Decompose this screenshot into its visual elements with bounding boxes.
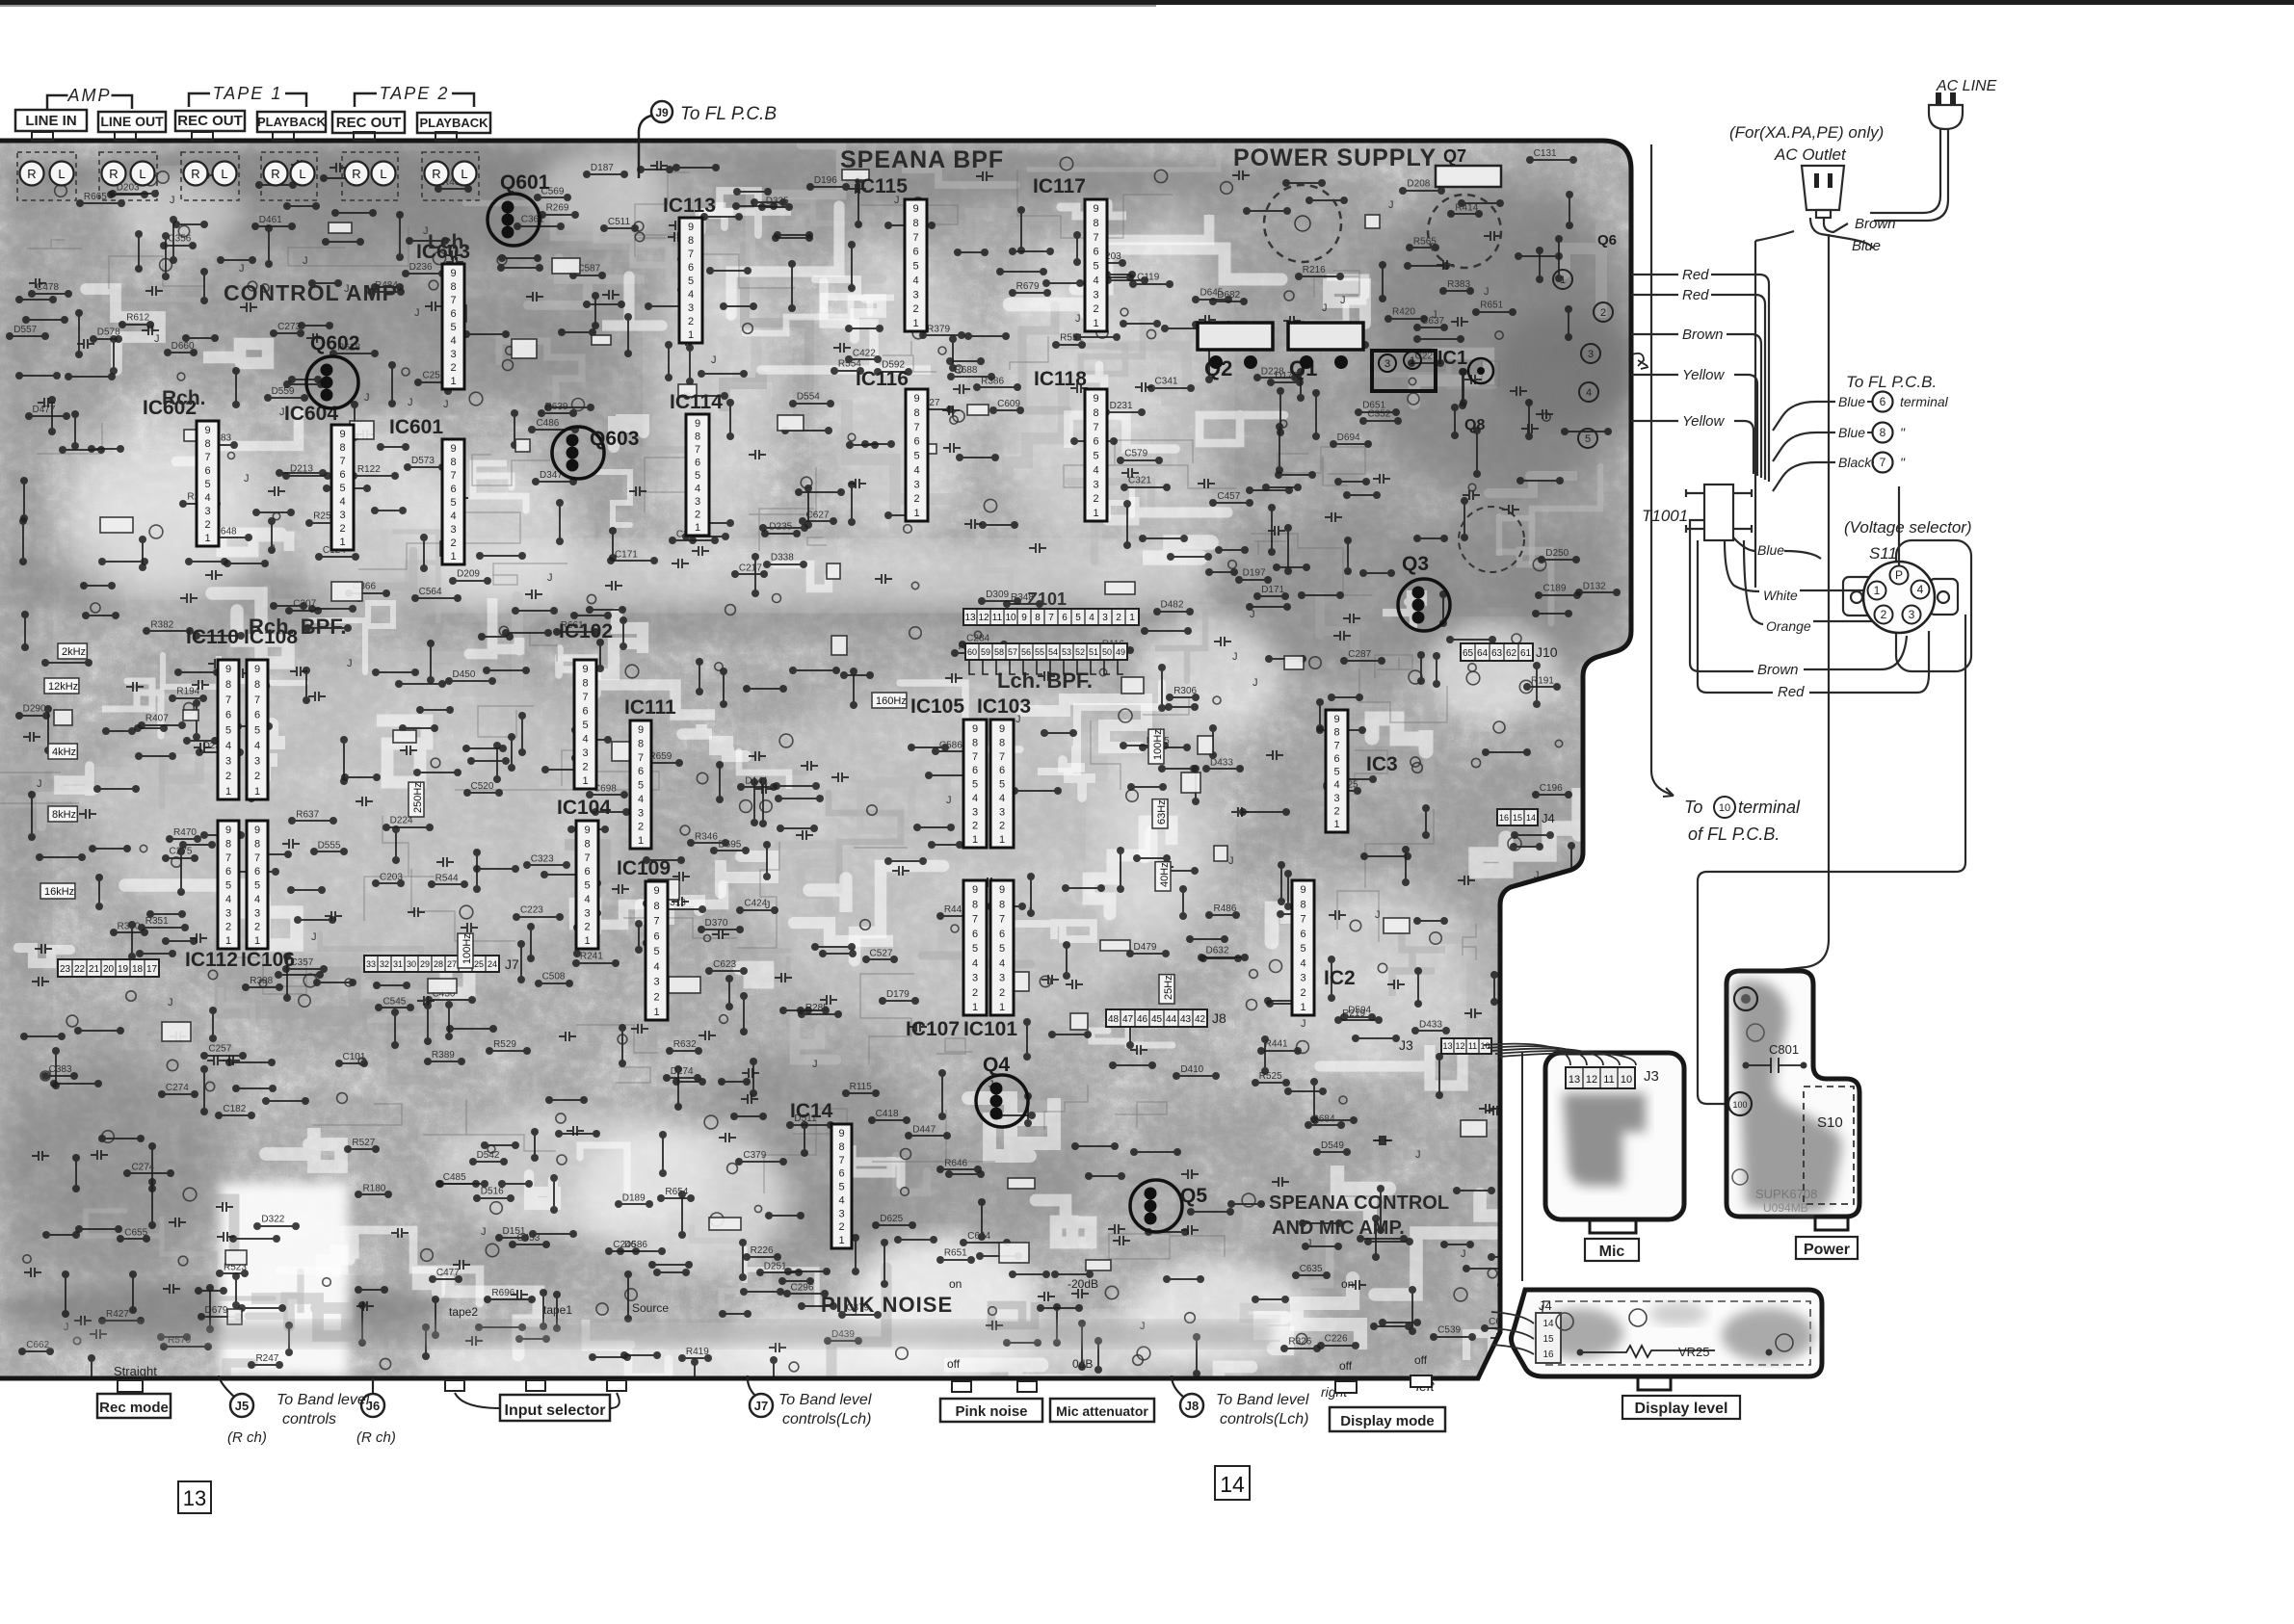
svg-text:5: 5 — [1333, 767, 1339, 778]
IC package IC111 — [630, 720, 651, 849]
circled pads 1-5 on board edge — [1553, 270, 1572, 289]
svg-text:8: 8 — [254, 679, 260, 691]
svg-text:R216: R216 — [1303, 265, 1326, 275]
connector R/L pair 6 — [422, 152, 479, 200]
IC package IC116 — [906, 389, 928, 521]
svg-text:on: on — [949, 1277, 962, 1291]
svg-text:18: 18 — [132, 964, 144, 975]
svg-text:Red: Red — [1682, 267, 1709, 283]
svg-text:controls: controls — [282, 1411, 336, 1428]
svg-text:9: 9 — [695, 418, 700, 430]
wire Yellow from board edge — [1631, 420, 1678, 422]
svg-text:J: J — [347, 658, 353, 669]
svg-text:3: 3 — [1909, 608, 1915, 621]
svg-text:C609: C609 — [997, 399, 1020, 409]
svg-text:3: 3 — [688, 302, 694, 314]
svg-text:IC111: IC111 — [624, 696, 676, 719]
svg-text:J: J — [37, 778, 42, 790]
svg-text:R486: R486 — [1213, 904, 1236, 914]
svg-text:29: 29 — [420, 959, 430, 969]
svg-text:4: 4 — [688, 289, 694, 301]
svg-text:2: 2 — [1093, 493, 1098, 505]
svg-text:6: 6 — [1093, 247, 1098, 258]
IC package IC108 — [247, 660, 268, 799]
svg-text:33: 33 — [366, 959, 376, 969]
wire from S11 right tab to power board — [1698, 615, 1965, 1104]
svg-text:8: 8 — [999, 737, 1005, 748]
svg-text:64: 64 — [1477, 648, 1489, 659]
svg-text:L: L — [461, 167, 467, 181]
svg-text:J: J — [1484, 286, 1490, 298]
svg-text:4: 4 — [582, 734, 588, 746]
svg-text:R308: R308 — [250, 976, 273, 986]
svg-text:8: 8 — [450, 457, 456, 468]
Display level gray blobs — [1537, 1308, 1623, 1358]
svg-text:5: 5 — [225, 725, 231, 737]
svg-text:1: 1 — [1129, 613, 1135, 623]
svg-text:2: 2 — [838, 1221, 844, 1233]
svg-text:7: 7 — [838, 1155, 844, 1166]
svg-text:1: 1 — [584, 935, 590, 947]
svg-text:1: 1 — [653, 1007, 659, 1018]
svg-text:D482: D482 — [1161, 600, 1184, 611]
svg-text:9: 9 — [225, 825, 231, 836]
input selector tabs and wires — [445, 1380, 464, 1391]
svg-text:6: 6 — [225, 710, 231, 721]
svg-text:6: 6 — [913, 436, 919, 448]
svg-text:IC107: IC107 — [906, 1018, 960, 1040]
connector Z101 lower pin row — [965, 643, 1127, 660]
svg-text:J: J — [1075, 313, 1081, 325]
svg-text:12kHz: 12kHz — [48, 681, 78, 693]
tab above Rec mode — [118, 1380, 143, 1392]
label box Power — [1796, 1237, 1858, 1259]
svg-text:D208: D208 — [1407, 179, 1430, 190]
svg-text:Source: Source — [632, 1301, 669, 1315]
svg-text:9: 9 — [1093, 203, 1098, 215]
svg-text:8: 8 — [254, 838, 260, 850]
svg-text:J6: J6 — [366, 1399, 380, 1413]
small resistor/capacitor lead glyphs — [371, 507, 407, 514]
svg-text:46: 46 — [1137, 1014, 1148, 1025]
svg-text:R: R — [109, 167, 118, 181]
svg-text:IC3: IC3 — [1366, 753, 1398, 775]
svg-text:Yellow: Yellow — [1682, 413, 1726, 430]
wire J7 to board — [748, 1375, 755, 1396]
IC package IC601 — [442, 439, 464, 564]
svg-text:10: 10 — [1719, 802, 1730, 814]
svg-text:6: 6 — [254, 710, 260, 721]
transistor Q601 — [488, 194, 540, 246]
svg-text:J: J — [239, 263, 245, 275]
transistor Q2 package — [1198, 323, 1273, 350]
svg-text:Black: Black — [1838, 455, 1872, 470]
svg-text:Pink noise: Pink noise — [955, 1403, 1027, 1420]
svg-text:R651: R651 — [944, 1248, 967, 1259]
svg-text:IC117: IC117 — [1033, 175, 1086, 197]
svg-text:C418: C418 — [876, 1109, 899, 1119]
svg-text:D213: D213 — [290, 464, 313, 475]
svg-text:J8: J8 — [1185, 1399, 1199, 1413]
svg-text:C627: C627 — [806, 510, 830, 520]
svg-text:J7: J7 — [505, 956, 519, 972]
svg-text:5: 5 — [972, 943, 978, 955]
svg-text:C635: C635 — [1300, 1264, 1323, 1274]
svg-text:P: P — [1895, 568, 1903, 582]
svg-text:9: 9 — [688, 222, 694, 233]
svg-text:1: 1 — [972, 1002, 978, 1013]
svg-text:6: 6 — [1300, 929, 1305, 940]
svg-text:1: 1 — [1410, 355, 1415, 367]
svg-text:IC601: IC601 — [389, 416, 443, 438]
svg-text:J9: J9 — [655, 106, 669, 119]
svg-text:2: 2 — [638, 822, 644, 833]
dark bus band above bottom edge — [29, 1322, 1272, 1347]
svg-text:C203: C203 — [380, 872, 403, 882]
svg-text:R: R — [27, 167, 36, 181]
frequency label 40Hz — [1155, 862, 1171, 891]
label box REC OUT — [332, 112, 405, 133]
svg-text:J3: J3 — [1399, 1037, 1413, 1053]
label box Input selector — [500, 1395, 610, 1421]
svg-text:15: 15 — [1513, 813, 1522, 823]
connector J3 pin row on main board — [1441, 1038, 1491, 1054]
svg-text:9: 9 — [999, 884, 1005, 896]
IC package IC package — [990, 880, 1014, 1015]
svg-text:2: 2 — [225, 922, 231, 933]
svg-text:IC14: IC14 — [790, 1100, 833, 1122]
svg-text:J: J — [170, 195, 175, 206]
small pad circle — [1747, 1024, 1764, 1041]
component outline boxes — [1121, 677, 1144, 694]
IC package IC105 — [963, 720, 987, 848]
svg-text:1: 1 — [913, 508, 919, 519]
svg-text:2: 2 — [972, 987, 978, 999]
svg-text:8: 8 — [1333, 727, 1339, 739]
svg-text:D594: D594 — [1348, 1006, 1371, 1016]
frequency label 100Hz — [1148, 729, 1164, 764]
svg-text:7: 7 — [339, 456, 345, 467]
svg-text:9: 9 — [204, 425, 210, 436]
svg-text:LINE IN: LINE IN — [25, 113, 76, 129]
svg-text:3: 3 — [653, 977, 659, 988]
svg-text:42: 42 — [1195, 1014, 1206, 1025]
svg-text:8: 8 — [653, 901, 659, 912]
svg-text:1: 1 — [339, 537, 345, 548]
svg-text:IC1: IC1 — [1437, 348, 1467, 369]
svg-text:R470: R470 — [173, 827, 197, 838]
svg-text:R: R — [191, 167, 199, 181]
svg-text:D433: D433 — [1419, 1019, 1442, 1030]
svg-text:8: 8 — [838, 1141, 844, 1153]
svg-text:J: J — [443, 399, 449, 410]
svg-text:D132: D132 — [1583, 581, 1606, 591]
Power board gray trace blob — [1734, 981, 1842, 1213]
svg-text:off: off — [1414, 1353, 1428, 1367]
frequency label 2kHz — [58, 643, 87, 659]
frequency label 25Hz — [1159, 975, 1174, 1004]
label box Display mode — [1330, 1407, 1445, 1431]
svg-text:Red: Red — [1682, 287, 1709, 303]
svg-text:SPEANA CONTROL: SPEANA CONTROL — [1269, 1192, 1449, 1214]
node J8 — [1180, 1394, 1203, 1417]
svg-text:R351: R351 — [145, 916, 169, 927]
svg-text:8: 8 — [339, 442, 345, 454]
wires into J4 — [1491, 1312, 1534, 1323]
svg-text:L: L — [139, 167, 145, 181]
svg-text:2: 2 — [450, 537, 456, 549]
IC package IC115 — [905, 199, 927, 331]
page number 14 — [1215, 1466, 1250, 1500]
svg-text:7: 7 — [204, 452, 210, 463]
svg-text:2: 2 — [254, 922, 260, 933]
svg-text:S11: S11 — [1869, 544, 1897, 563]
svg-text:R180: R180 — [362, 1183, 385, 1193]
svg-text:3: 3 — [339, 510, 345, 521]
small screw pad — [1732, 1169, 1748, 1185]
svg-text:19: 19 — [118, 964, 129, 975]
svg-text:3: 3 — [999, 806, 1005, 818]
svg-text:D573: D573 — [411, 456, 435, 466]
bracket AMP — [47, 95, 68, 109]
svg-text:6: 6 — [254, 866, 260, 877]
svg-text:R529: R529 — [493, 1039, 516, 1050]
svg-text:4: 4 — [999, 793, 1005, 804]
label box LINE IN — [15, 110, 87, 131]
transistor Q5 — [1130, 1180, 1182, 1232]
svg-text:Z101: Z101 — [1027, 589, 1067, 609]
svg-text:9: 9 — [225, 664, 231, 675]
svg-text:8: 8 — [913, 407, 919, 419]
svg-text:D660: D660 — [171, 341, 195, 352]
label box Display level — [1622, 1396, 1740, 1419]
svg-text:C182: C182 — [223, 1104, 246, 1114]
svg-text:L: L — [380, 167, 386, 181]
svg-text:C623: C623 — [713, 959, 736, 970]
svg-text:1: 1 — [838, 1235, 844, 1246]
svg-text:13: 13 — [964, 613, 976, 623]
svg-text:8: 8 — [1093, 407, 1098, 419]
svg-text:8: 8 — [584, 838, 590, 850]
svg-text:R427: R427 — [106, 1309, 129, 1320]
svg-text:J: J — [303, 255, 308, 267]
voltage selector S11 connector — [1896, 540, 1971, 671]
regulator IC1 — [1372, 351, 1436, 391]
svg-text:2: 2 — [339, 523, 345, 535]
svg-text:D410: D410 — [1180, 1064, 1203, 1075]
svg-text:51: 51 — [1089, 647, 1098, 657]
svg-text:C287: C287 — [1348, 649, 1371, 660]
svg-text:4: 4 — [225, 740, 231, 751]
svg-text:D695: D695 — [718, 839, 741, 850]
svg-text:22: 22 — [74, 964, 86, 975]
svg-text:3: 3 — [972, 806, 978, 818]
svg-text:7: 7 — [1300, 914, 1305, 926]
svg-text:3: 3 — [1588, 349, 1594, 360]
svg-text:0dB: 0dB — [1072, 1357, 1093, 1371]
svg-text:3: 3 — [1384, 358, 1390, 370]
svg-text:7: 7 — [582, 692, 588, 703]
Display board bottom tab — [1638, 1376, 1671, 1390]
svg-text:C273: C273 — [277, 322, 301, 332]
svg-text:D433: D433 — [1210, 757, 1233, 768]
wire loop from T1001 left — [1690, 520, 1753, 671]
svg-text:AC Outlet: AC Outlet — [1774, 145, 1847, 164]
svg-text:1: 1 — [1093, 508, 1098, 519]
svg-text:S10: S10 — [1817, 1114, 1843, 1131]
svg-text:12: 12 — [1586, 1074, 1597, 1086]
svg-text:6: 6 — [972, 765, 978, 776]
svg-text:Q603: Q603 — [590, 428, 639, 450]
svg-text:PLAYBACK: PLAYBACK — [257, 115, 327, 129]
svg-text:27: 27 — [447, 959, 457, 969]
svg-text:5: 5 — [582, 720, 588, 731]
connector J8 pin row — [1106, 1009, 1207, 1027]
Power sub-board outline — [1727, 971, 1859, 1217]
svg-text:60: 60 — [967, 647, 977, 657]
svg-text:100Hz: 100Hz — [1152, 729, 1164, 760]
label box PLAYBACK — [257, 112, 326, 132]
svg-text:R: R — [271, 167, 279, 181]
bracket TAPE 2 — [355, 93, 377, 107]
svg-text:7: 7 — [1333, 740, 1339, 751]
cord wires to outlet — [1810, 218, 1873, 249]
svg-text:54: 54 — [1048, 647, 1058, 657]
svg-text:3: 3 — [1093, 289, 1098, 301]
transistor Q3 — [1398, 579, 1450, 631]
svg-text:4: 4 — [254, 740, 260, 751]
svg-text:1: 1 — [912, 318, 918, 329]
svg-text:7: 7 — [999, 751, 1005, 763]
svg-text:6: 6 — [1062, 613, 1068, 623]
svg-text:4: 4 — [653, 961, 659, 973]
svg-text:D251: D251 — [764, 1261, 787, 1271]
svg-text:C511: C511 — [608, 217, 631, 227]
svg-text:J4: J4 — [1542, 811, 1555, 825]
IC package IC2 — [1292, 880, 1314, 1015]
svg-text:160Hz: 160Hz — [876, 695, 907, 707]
svg-text:J: J — [311, 931, 317, 943]
svg-text:C655: C655 — [124, 1227, 147, 1238]
label box PLAYBACK — [417, 113, 490, 133]
svg-text:To Band level: To Band level — [778, 1392, 872, 1408]
svg-text:6: 6 — [1880, 395, 1886, 408]
svg-text:7: 7 — [1093, 232, 1098, 244]
svg-text:CONTROL AMP: CONTROL AMP — [224, 280, 398, 305]
svg-text:5: 5 — [339, 483, 345, 494]
svg-text:6: 6 — [999, 929, 1005, 940]
svg-text:9: 9 — [1333, 714, 1339, 725]
frequency label 4kHz — [48, 744, 77, 759]
transistor Q603 — [552, 427, 604, 479]
svg-text:AC LINE: AC LINE — [1936, 78, 1997, 94]
svg-text:D250: D250 — [1545, 548, 1569, 559]
svg-text:C196: C196 — [1540, 783, 1563, 794]
svg-text:8: 8 — [204, 438, 210, 450]
svg-text:1: 1 — [450, 551, 456, 563]
svg-text:J: J — [168, 997, 173, 1008]
svg-text:8: 8 — [912, 218, 918, 229]
svg-text:Power: Power — [1804, 1242, 1850, 1258]
svg-text:8: 8 — [999, 899, 1005, 910]
wire Red from board edge — [1631, 274, 1678, 275]
Power board bottom tab — [1815, 1217, 1848, 1230]
svg-text:9: 9 — [450, 268, 456, 279]
svg-text:D549: D549 — [1321, 1140, 1344, 1151]
svg-text:tape2: tape2 — [449, 1305, 478, 1319]
svg-text:3: 3 — [1093, 479, 1098, 490]
wires from main board to mic J3 — [1484, 1044, 1570, 1065]
svg-text:1: 1 — [582, 775, 588, 787]
svg-text:3: 3 — [913, 479, 919, 490]
svg-text:2: 2 — [653, 991, 659, 1003]
svg-text:Q4: Q4 — [983, 1054, 1010, 1076]
svg-text:4: 4 — [1093, 275, 1098, 286]
svg-text:62: 62 — [1506, 648, 1517, 659]
svg-text:2: 2 — [450, 362, 456, 374]
svg-text:D196: D196 — [814, 175, 837, 186]
svg-text:13: 13 — [1442, 1041, 1452, 1051]
svg-text:10: 10 — [1005, 613, 1016, 623]
svg-text:45: 45 — [1151, 1014, 1163, 1025]
wire Red from board edge — [1631, 294, 1678, 296]
svg-text:30: 30 — [407, 959, 416, 969]
svg-text:R383: R383 — [1447, 279, 1470, 290]
svg-text:R379: R379 — [927, 324, 950, 334]
wire from J9 into board — [639, 116, 651, 178]
svg-text:D370: D370 — [705, 918, 728, 929]
svg-text:7: 7 — [688, 249, 694, 260]
svg-text:25Hz: 25Hz — [1163, 975, 1174, 1000]
IC package IC117 — [1085, 199, 1107, 331]
svg-text:8: 8 — [582, 678, 588, 690]
svg-text:IC118: IC118 — [1034, 368, 1087, 390]
svg-text:R632: R632 — [673, 1039, 697, 1050]
svg-text:3: 3 — [638, 807, 644, 819]
label box Mic attenuator — [1050, 1399, 1154, 1422]
wire vertical to To(10) terminal arrow — [1651, 144, 1674, 796]
svg-text:C274: C274 — [131, 1162, 154, 1172]
svg-text:Input selector: Input selector — [505, 1402, 606, 1419]
svg-text:R407: R407 — [145, 714, 169, 724]
svg-text:C527: C527 — [870, 948, 893, 958]
svg-text:4: 4 — [450, 511, 456, 522]
svg-text:R696: R696 — [491, 1288, 514, 1298]
svg-text:8: 8 — [1035, 613, 1041, 623]
svg-text:14: 14 — [1526, 813, 1536, 823]
svg-text:9: 9 — [638, 724, 644, 736]
svg-text:IC113: IC113 — [663, 195, 716, 217]
svg-text:3: 3 — [225, 907, 231, 919]
svg-text:7: 7 — [254, 694, 260, 706]
svg-text:tape1: tape1 — [543, 1303, 572, 1317]
svg-text:J: J — [481, 1226, 487, 1238]
svg-text:7: 7 — [1048, 613, 1054, 623]
svg-text:IC114: IC114 — [670, 391, 723, 413]
svg-text:3: 3 — [584, 907, 590, 919]
svg-text:Q7: Q7 — [1443, 146, 1466, 166]
svg-text:Rec mode: Rec mode — [99, 1400, 169, 1416]
svg-text:J: J — [414, 307, 420, 319]
node J5 — [230, 1394, 253, 1417]
scan page top border line — [0, 0, 2294, 5]
svg-text:Yellow: Yellow — [1682, 367, 1726, 383]
svg-text:R688: R688 — [955, 365, 978, 376]
wire Yellow from board edge — [1631, 374, 1678, 376]
svg-text:2: 2 — [584, 922, 590, 933]
svg-text:9: 9 — [254, 825, 260, 836]
svg-text:3: 3 — [450, 349, 456, 360]
